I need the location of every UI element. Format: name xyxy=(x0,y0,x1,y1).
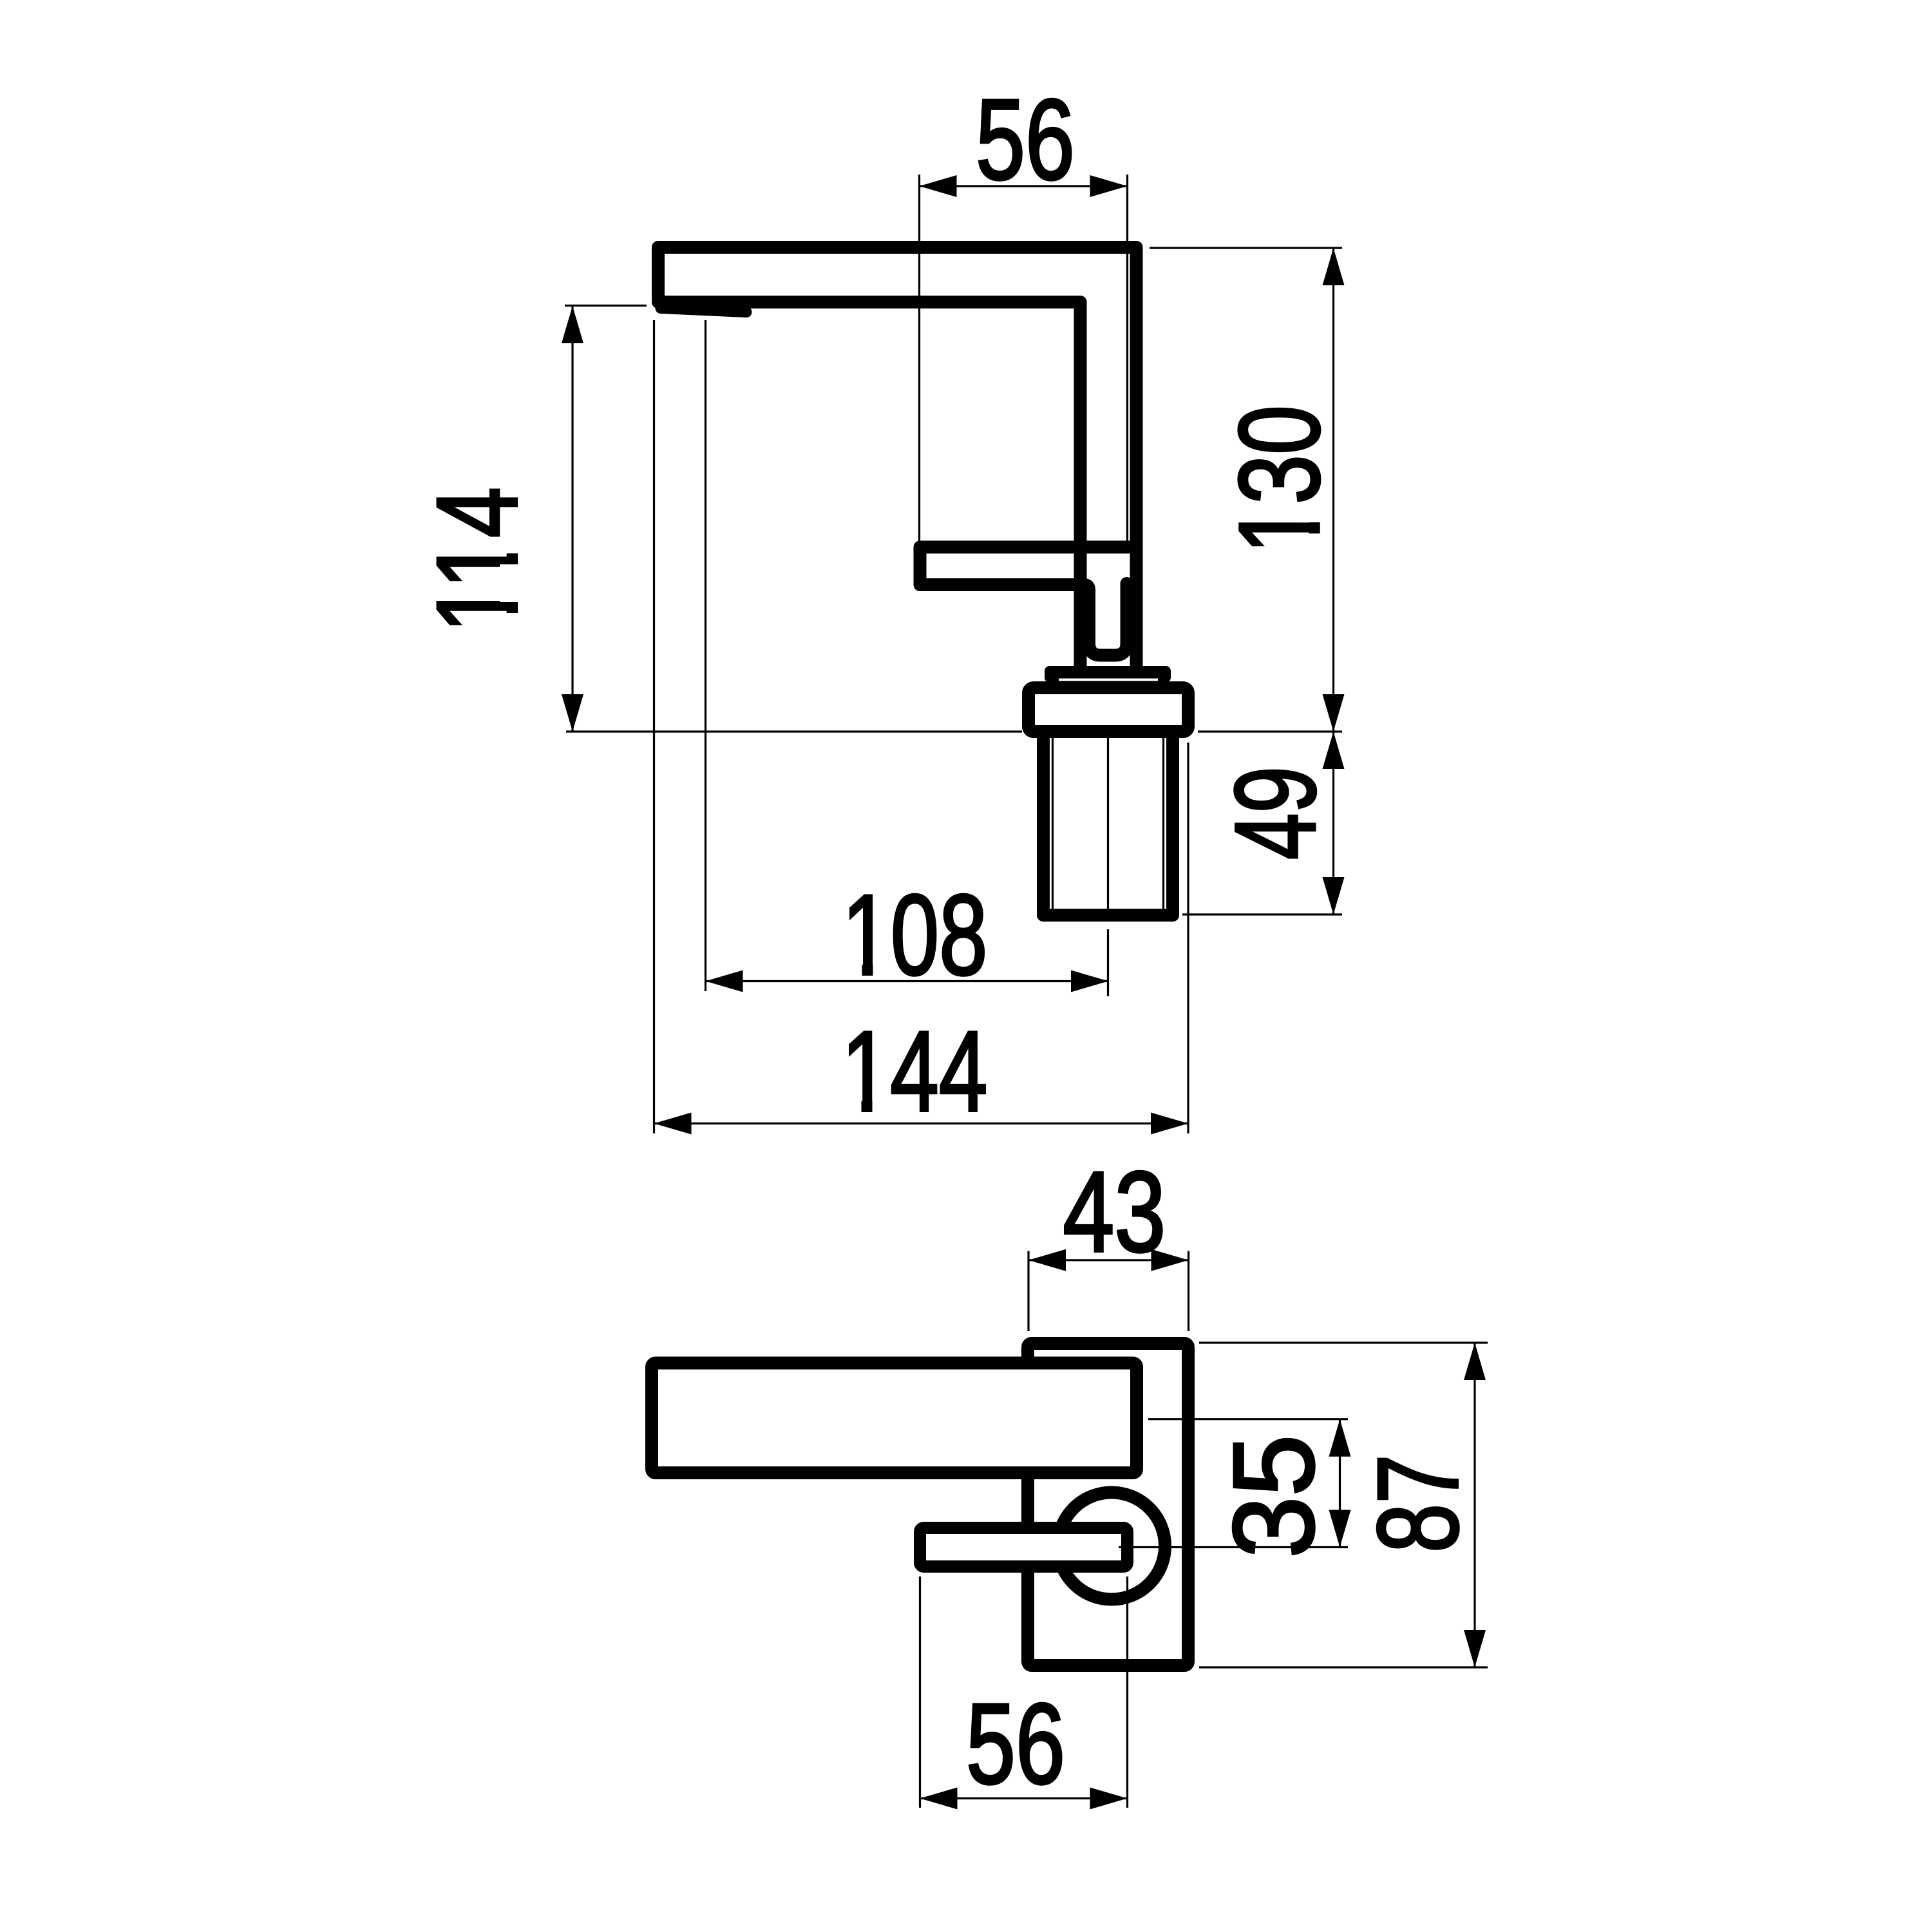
svg-text:43: 43 xyxy=(1063,1148,1166,1276)
white patches removing serif foot of 1 in 130 xyxy=(1302,504,1321,554)
dimension 108 extension line (left) xyxy=(705,320,706,991)
white patches removing serif foot of 1 in 108 xyxy=(842,958,891,976)
dimension 43 line xyxy=(1028,1259,1189,1261)
dimension 56 line (bottom view) xyxy=(920,1797,1128,1799)
dimension 114 extension line (top) xyxy=(565,305,647,307)
svg-text:87: 87 xyxy=(1354,1454,1482,1553)
dimension 56 extension lines (bottom view) xyxy=(919,1577,921,1808)
dimension 35 extension line (top) xyxy=(1148,1418,1348,1420)
upper mounting flange (black band) xyxy=(1045,666,1171,683)
svg-text:108: 108 xyxy=(842,871,988,999)
svg-text:56: 56 xyxy=(966,1680,1065,1808)
svg-text:144: 144 xyxy=(842,1007,988,1135)
spout (plan) xyxy=(652,1363,1137,1473)
dimension 35 line xyxy=(1339,1419,1341,1548)
dimension 114 line xyxy=(571,306,573,732)
dimension 49 line xyxy=(1332,732,1334,914)
handle lever with elbow xyxy=(920,547,1137,656)
svg-text:56: 56 xyxy=(976,75,1075,204)
white slit in upper flange xyxy=(1059,679,1158,681)
threaded shank xyxy=(1043,738,1173,915)
white patches removing serif feet of 1s in 114 xyxy=(500,535,518,633)
dimension 49 extension line (bottom) xyxy=(1182,913,1342,915)
dimension 87 line xyxy=(1473,1343,1475,1667)
escutcheon base flange xyxy=(1028,688,1188,732)
dimension 144 extension lines xyxy=(653,320,655,1133)
shank centre line xyxy=(1107,738,1109,909)
dimension 144 line xyxy=(654,1122,1189,1124)
faucet body outline (spout bar + riser column) xyxy=(658,247,1137,675)
dimension 130 extension line (top right) xyxy=(1150,247,1342,249)
aerator lip under spout xyxy=(661,308,746,312)
svg-text:130: 130 xyxy=(1215,405,1343,554)
dimension 56 line (top) xyxy=(920,185,1128,187)
cartridge circle xyxy=(1058,1493,1165,1600)
svg-text:114: 114 xyxy=(413,487,541,633)
handle (plan) xyxy=(920,1528,1128,1567)
dimension 87 extension lines xyxy=(1199,1341,1488,1343)
shank thread line left xyxy=(1052,738,1054,910)
dimension 43 extension lines xyxy=(1027,1251,1029,1331)
base plate xyxy=(1028,1343,1188,1665)
white patches removing serif foot of 1 in 144 xyxy=(842,1094,891,1113)
dimension 130 line xyxy=(1332,248,1334,732)
svg-text:49: 49 xyxy=(1211,766,1340,860)
valve centre line xyxy=(1119,1546,1348,1548)
shank thread line right xyxy=(1162,738,1164,910)
dimension 56 extension lines xyxy=(918,175,920,544)
dimension 108 line xyxy=(706,980,1109,982)
countertop reference line xyxy=(566,730,1022,732)
svg-text:35: 35 xyxy=(1209,1435,1338,1558)
